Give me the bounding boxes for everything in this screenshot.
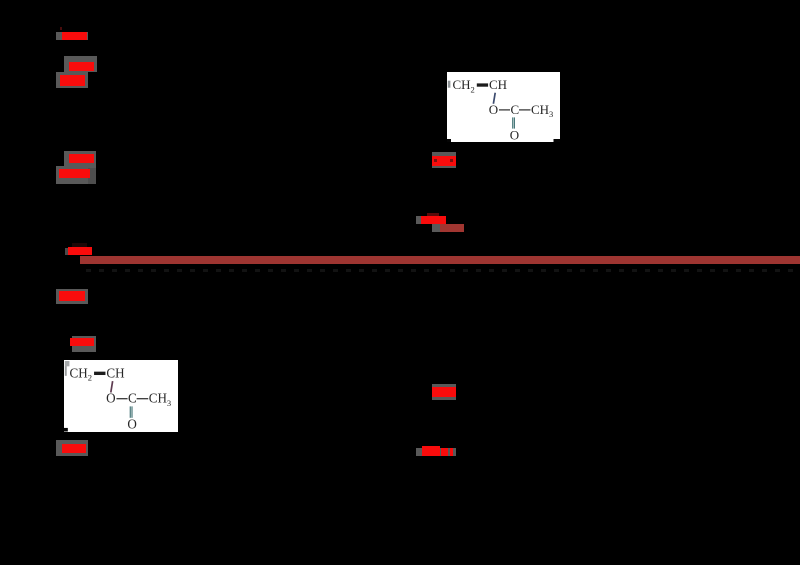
bottom-right black notch <box>554 139 561 142</box>
highlight pair gray 2 <box>432 224 440 232</box>
bond CH-O <box>494 92 496 103</box>
structure image top-right: vinyl acetate <box>447 72 560 142</box>
svg-text:CH: CH <box>489 77 507 92</box>
highlight bar 3 gray <box>56 72 88 88</box>
svg-text:O: O <box>489 101 498 116</box>
svg-text:C: C <box>511 101 520 116</box>
highlight bar 4 gray <box>432 152 456 168</box>
svg-text:2: 2 <box>471 84 475 94</box>
highlight bar 3b red upper <box>69 154 94 163</box>
svg-text:CH: CH <box>531 101 549 116</box>
dark dots in bar 4 <box>434 159 437 162</box>
highlight bar 3c red lower <box>59 169 90 179</box>
highlight pair brick <box>440 224 464 232</box>
svg-text:CH: CH <box>106 365 125 380</box>
highlight bar 6 red <box>70 338 94 346</box>
highlight bar 5 gray <box>56 289 88 305</box>
highlight bar 5 red text <box>59 291 85 301</box>
highlight bar 3c gray lower-right <box>88 168 96 184</box>
highlight bar 1 gray <box>56 32 88 40</box>
tiny maroon dot above bar 1 <box>60 27 63 31</box>
highlight pair red <box>421 216 446 225</box>
highlight bar 7 gray <box>432 384 456 400</box>
svg-text:2: 2 <box>87 373 91 383</box>
svg-text:3: 3 <box>167 398 171 408</box>
horizontal rule <box>80 256 800 263</box>
faint fuzz above heading word <box>72 243 87 247</box>
svg-text:O: O <box>510 127 519 142</box>
red fuzz above <box>427 213 439 215</box>
svg-text:O: O <box>106 391 115 406</box>
highlight bar 3b gray upper <box>64 151 96 168</box>
svg-text:CH: CH <box>453 77 471 92</box>
heading red word <box>65 248 69 255</box>
highlight bar 7 red <box>432 387 456 397</box>
highlight bar 6 gray <box>72 336 96 353</box>
highlight bar 9 gray <box>56 440 88 456</box>
highlight bar 2 red text <box>69 62 94 72</box>
highlight pair gray notch <box>416 216 422 224</box>
svg-text:C: C <box>128 391 137 406</box>
highlight bar 9 red <box>62 444 86 454</box>
highlight bar 8 gray strip <box>416 448 456 456</box>
gray tick <box>448 80 451 87</box>
highlight bar 4 red <box>432 156 456 166</box>
C=O double bond <box>512 117 514 128</box>
highlight bar 3c gray lower <box>56 166 88 184</box>
bond O-C <box>499 108 510 110</box>
highlight bar 3 red text <box>60 75 85 85</box>
highlight bar 8 red text chunks <box>422 446 440 456</box>
bottom-left black notch <box>447 139 451 142</box>
bond C-CH3 <box>519 108 531 110</box>
highlight bar 1 red <box>62 32 87 41</box>
highlight bar 2 gray <box>64 56 97 72</box>
svg-text:O: O <box>127 417 136 432</box>
double bond thick <box>477 83 488 86</box>
ghost dashed text line under rule <box>86 269 796 272</box>
structure image bottom-left: vinyl acetate <box>64 360 178 432</box>
svg-text:CH: CH <box>148 391 167 406</box>
svg-text:3: 3 <box>549 109 553 119</box>
svg-text:CH: CH <box>69 365 88 380</box>
